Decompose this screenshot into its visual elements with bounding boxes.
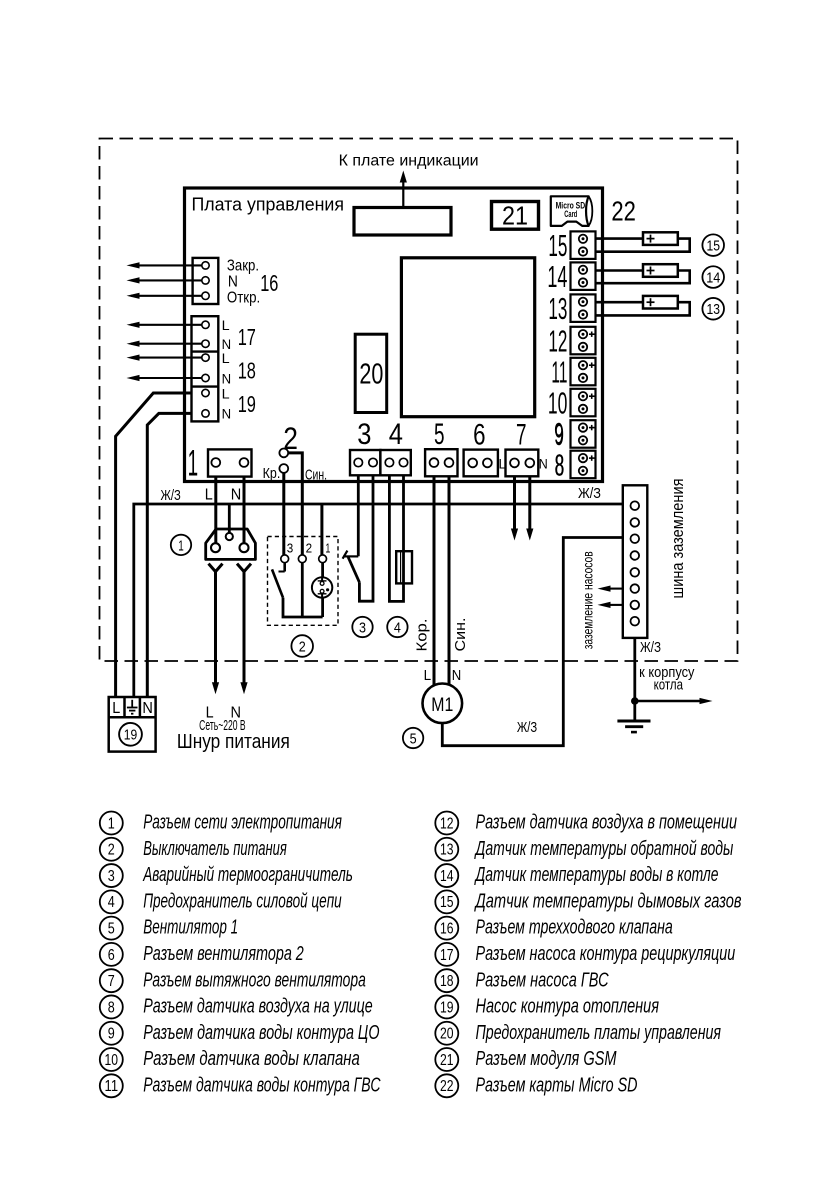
svg-text:Закр.: Закр. [227,257,259,274]
svg-text:19: 19 [124,727,138,744]
svg-text:6: 6 [108,947,115,964]
svg-text:2: 2 [306,541,313,556]
svg-text:Разъем датчика воды контура ГВ: Разъем датчика воды контура ГВС [143,1074,381,1096]
svg-text:Предохранитель платы управлени: Предохранитель платы управления [476,1022,722,1044]
svg-text:1: 1 [325,541,330,556]
svg-text:К плате индикации: К плате индикации [339,153,479,170]
svg-text:2: 2 [283,420,298,456]
svg-text:L: L [112,700,120,717]
svg-text:10: 10 [105,1052,119,1069]
svg-text:Плата управления: Плата управления [192,193,345,214]
svg-text:L: L [222,351,231,366]
svg-text:Разъем датчика воздуха в помещ: Разъем датчика воздуха в помещении [476,812,738,834]
svg-text:Разъем датчика воды клапана: Разъем датчика воды клапана [143,1048,360,1070]
svg-text:N: N [142,700,153,717]
svg-text:Датчик температуры обратной во: Датчик температуры обратной воды [474,838,733,860]
svg-text:11: 11 [551,355,567,390]
svg-text:L: L [222,386,231,401]
svg-text:шина заземления: шина заземления [668,479,687,599]
svg-text:N: N [231,487,242,504]
svg-text:19: 19 [440,999,454,1016]
svg-text:1: 1 [108,815,115,832]
svg-text:12: 12 [548,324,567,359]
svg-text:заземление насосов: заземление насосов [581,551,596,649]
svg-text:20: 20 [359,358,383,390]
svg-text:М1: М1 [431,695,453,716]
svg-text:11: 11 [105,1078,119,1095]
svg-text:18: 18 [440,973,454,990]
svg-text:15: 15 [706,238,720,255]
svg-text:8: 8 [108,999,115,1016]
svg-text:N: N [228,274,238,291]
svg-text:9: 9 [108,1026,115,1043]
svg-text:13: 13 [706,301,720,318]
svg-text:15: 15 [548,228,567,263]
svg-text:Ж/З: Ж/З [578,485,601,502]
svg-text:2: 2 [108,842,115,859]
svg-text:N: N [452,667,462,684]
svg-text:Кор.: Кор. [414,619,431,652]
svg-text:Ж/З: Ж/З [517,719,537,736]
svg-text:Card: Card [564,209,577,219]
svg-text:L: L [205,487,213,504]
svg-text:Разъем насоса ГВС: Разъем насоса ГВС [476,969,609,991]
svg-text:5: 5 [410,730,417,747]
svg-text:Датчик температуры воды в котл: Датчик температуры воды в котле [474,864,718,886]
svg-text:Шнур питания: Шнур питания [177,731,290,753]
svg-text:Разъем модуля GSM: Разъем модуля GSM [476,1048,617,1070]
svg-text:L: L [222,318,231,333]
svg-text:17: 17 [238,324,256,350]
svg-text:6: 6 [473,418,485,451]
svg-text:2: 2 [299,638,306,655]
svg-text:19: 19 [238,391,256,417]
svg-text:N: N [222,407,232,422]
svg-text:N: N [539,456,548,472]
svg-text:3: 3 [108,868,115,885]
svg-text:4: 4 [394,619,401,636]
svg-text:16: 16 [260,270,278,296]
svg-text:Датчик температуры дымовых газ: Датчик температуры дымовых газов [474,890,741,912]
svg-text:L: L [424,667,432,684]
svg-text:N: N [222,371,232,386]
svg-text:14: 14 [440,868,454,885]
svg-text:5: 5 [108,921,115,938]
svg-text:13: 13 [440,842,454,859]
svg-text:Ж/З: Ж/З [640,639,661,656]
svg-text:3: 3 [357,418,371,451]
svg-text:L: L [498,456,506,472]
svg-text:Разъем насоса контура рециркул: Разъем насоса контура рециркуляции [476,943,736,965]
svg-text:Разъем датчика воды контура ЦО: Разъем датчика воды контура ЦО [143,1022,379,1044]
svg-text:16: 16 [440,921,454,938]
svg-text:12: 12 [440,815,454,832]
svg-text:22: 22 [611,195,636,226]
svg-text:4: 4 [108,894,115,911]
svg-text:21: 21 [502,201,528,231]
svg-text:N: N [222,337,232,352]
svg-text:3: 3 [359,619,366,636]
svg-text:7: 7 [108,973,115,990]
svg-text:Разъем вытяжного вентилятора: Разъем вытяжного вентилятора [143,969,366,991]
svg-text:1: 1 [178,537,184,554]
svg-text:Аварийный термоограничитель: Аварийный термоограничитель [143,864,353,886]
svg-text:Син.: Син. [452,618,469,652]
svg-text:22: 22 [440,1078,454,1095]
svg-text:7: 7 [516,418,527,451]
svg-text:Разъем трехходвого клапана: Разъем трехходвого клапана [476,917,673,939]
svg-text:9: 9 [554,416,564,451]
svg-text:1: 1 [188,443,199,484]
svg-text:3: 3 [287,541,294,556]
svg-text:Ж/З: Ж/З [161,487,181,504]
svg-text:20: 20 [440,1026,454,1043]
svg-text:котла: котла [654,676,684,693]
svg-text:Син.: Син. [305,467,327,484]
svg-text:Вентилятор 1: Вентилятор 1 [143,917,238,939]
svg-text:13: 13 [548,291,567,326]
svg-text:Откр.: Откр. [227,290,260,307]
svg-text:Кр.: Кр. [263,465,281,482]
svg-text:Выключатель питания: Выключатель питания [143,838,287,860]
svg-text:4: 4 [389,418,403,451]
svg-text:15: 15 [440,894,454,911]
svg-text:Предохранитель силовой цепи: Предохранитель силовой цепи [143,890,342,912]
svg-text:Разъем вентилятора 2: Разъем вентилятора 2 [143,943,304,965]
svg-text:21: 21 [440,1052,454,1069]
svg-text:14: 14 [706,269,720,286]
svg-text:18: 18 [238,357,256,383]
svg-text:Разъем датчика воздуха на улиц: Разъем датчика воздуха на улице [143,996,373,1018]
svg-text:5: 5 [434,418,445,451]
svg-text:Насос контура отопления: Насос контура отопления [476,996,660,1018]
svg-text:8: 8 [555,447,565,482]
svg-text:Разъем сети электропитания: Разъем сети электропитания [143,812,342,834]
svg-text:Разъем карты Micro SD: Разъем карты Micro SD [476,1074,638,1096]
svg-text:14: 14 [547,259,567,294]
svg-text:17: 17 [440,947,454,964]
